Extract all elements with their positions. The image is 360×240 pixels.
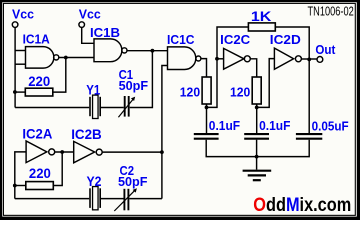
capacitor C2 right plate [127,189,129,211]
capacitor C2 arrow [114,190,135,211]
svg-text:Y1: Y1 [86,82,100,97]
wire second 0.1uF down to rail [256,140,258,157]
svg-text:50pF: 50pF [119,79,149,93]
resistor 120 second [252,77,261,104]
svg-text:IC2D: IC2D [270,33,301,47]
wire IC2A input left node [15,152,26,199]
bubble IC2D [295,56,301,62]
wire branch to IC2C riser [207,27,249,107]
svg-text:Vcc: Vcc [12,7,34,21]
wire Y1 row left [15,107,89,109]
inverter IC2A [26,141,47,163]
wire IC1A feedback to upper 220 [53,58,66,93]
svg-text:TN1006-02: TN1006-02 [308,5,354,19]
crystal Y1 left electrode [89,97,91,116]
wire IC2C input stub [217,58,224,60]
bubble IC2A [49,149,55,155]
bubble IC2B [96,149,102,155]
resistor 220 upper [25,88,53,96]
resistor 120 first [202,77,211,104]
wire IC2D out to Out [302,58,317,60]
svg-text:IC1B: IC1B [90,26,120,40]
node dot IC1A out [64,56,68,60]
node dot lower 220 left end [13,184,17,188]
wire first 120 bottom to first 0.1uF [206,104,208,133]
wire 1K right down to Out [275,27,309,133]
bubble IC1C [196,56,201,61]
node dot IC2B out [160,150,164,154]
crystal Y2 right electrode [99,188,101,208]
svg-text:120: 120 [180,85,200,100]
svg-text:Out: Out [315,43,336,57]
inverter IC2D [274,48,293,69]
wire IC1C bottom input riser [162,66,168,199]
wire IC1C out down to first 120 [201,59,207,77]
svg-text:220: 220 [28,74,50,89]
wire branch to IC2D riser [257,59,275,108]
NAND gate IC1C [168,47,196,70]
crystal Y1 right electrode [99,97,101,116]
capacitor 0.1uF first bottom plate [194,138,219,140]
bubble IC1A [54,55,59,60]
wire Y2 to C2 [101,198,124,200]
node dot second 120 bottom [255,106,259,110]
wire IC1A out to IC1B input [59,57,94,59]
svg-text:0.1uF: 0.1uF [259,118,290,133]
inverter IC2B [74,141,95,162]
svg-text:220: 220 [29,166,51,181]
wire Y2 row left [15,198,89,200]
capacitor C2 left plate [123,189,125,211]
bubble IC2C [244,56,250,62]
wire second 120 bottom to second 0.1uF [256,104,258,133]
capacitor 0.1uF second top plate [244,133,269,135]
resistor 1K [248,23,275,31]
NAND gate IC1B [94,39,122,62]
node dot Out junction [307,58,311,62]
wire IC2A feedback to lower 220 [53,152,62,186]
svg-text:Y2: Y2 [87,174,102,189]
Vcc terminal 2 [79,22,85,28]
wire C2 right to IC1C riser [129,198,162,200]
crystal Y2 box [93,187,99,210]
crystal Y1 box [93,95,99,118]
svg-text:IC2B: IC2B [71,127,102,142]
wire Vcc2 to IC1B input [82,27,94,43]
capacitor C1 arrow [118,99,133,118]
resistor 220 lower [26,182,54,190]
capacitor 0.05uF bottom plate [296,138,322,140]
svg-text:0.1uF: 0.1uF [209,118,240,133]
wire IC2B out [102,151,162,153]
node dot upper 220 left end [13,90,17,94]
wire upper 220 left lead [15,91,25,93]
svg-text:IC2C: IC2C [220,33,250,47]
svg-text:50pF: 50pF [118,175,148,189]
wire Y1 to C1 [101,107,124,109]
node dot IC2A out [60,150,64,154]
bubble IC1B [122,48,127,53]
node dot rail center [255,155,259,159]
Out terminal circle [317,57,323,63]
svg-text:Vcc: Vcc [79,7,101,21]
Vcc terminal 1 [12,22,18,28]
node dot first 120 bottom [205,106,209,110]
wire IC2A out to IC2B [55,151,74,153]
wire Vcc1 down left node [14,27,16,107]
capacitor 0.1uF first top plate [194,133,219,135]
wire IC1B out to IC1C [127,50,168,52]
node dot IC1C top input [151,49,155,53]
inverter IC2C [224,48,244,69]
svg-text:1K: 1K [251,9,272,24]
svg-text:0.05uF: 0.05uF [312,118,349,133]
node dot IC2C input [215,57,219,61]
svg-text:OddMix.com: OddMix.com [253,193,351,215]
wire IC2C out down to second 120 [250,59,256,77]
capacitor C1 left plate [124,96,126,117]
wire C1 right to IC1C input riser [130,51,153,108]
wire IC1A input stub bottom [15,63,25,65]
capacitor 0.05uF top plate [296,133,322,135]
svg-text:IC1A: IC1A [23,33,50,47]
wire ground rail [206,140,309,157]
crystal Y2 left electrode [89,188,91,208]
capacitor C1 right plate [128,96,130,117]
capacitor 0.1uF second bottom plate [244,138,269,140]
svg-text:IC1C: IC1C [167,33,195,47]
svg-text:IC2A: IC2A [22,127,52,142]
ground [256,157,258,170]
wire lower 220 left lead [15,185,26,187]
wire IC1A input stub top [15,50,25,52]
svg-text:120: 120 [230,85,250,100]
NAND gate IC1A [26,47,54,69]
